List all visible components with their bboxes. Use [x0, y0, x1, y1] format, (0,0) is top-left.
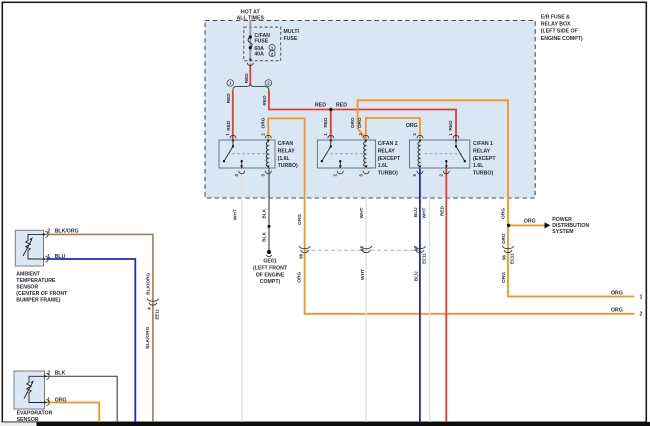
svg-text:BLK/ORG: BLK/ORG	[146, 272, 152, 294]
ambient sensor pin 2 symbol	[43, 231, 48, 237]
svg-text:WHT: WHT	[421, 207, 427, 218]
svg-text:GE01: GE01	[263, 259, 276, 265]
svg-text:RED: RED	[315, 103, 326, 109]
svg-text:(CENTER OF FRONT: (CENTER OF FRONT	[16, 291, 68, 297]
svg-text:50: 50	[413, 246, 418, 251]
svg-text:OF ENGINE: OF ENGINE	[256, 272, 285, 278]
wire ORG relay U2 pin 3 to relay U3 pin 3	[366, 118, 420, 140]
relay U1 coil	[266, 142, 268, 167]
svg-text:1: 1	[47, 398, 50, 404]
fuse output pin	[247, 63, 253, 66]
svg-text:ALL TIMES: ALL TIMES	[237, 15, 265, 21]
svg-text:RED: RED	[336, 103, 347, 109]
svg-text:SYSTEM: SYSTEM	[552, 229, 573, 235]
circled 2 at brace	[265, 80, 272, 87]
svg-text:SENSOR: SENSOR	[16, 285, 38, 291]
fuse element C/FAN FUSE	[248, 37, 252, 48]
svg-text:ORG: ORG	[55, 398, 67, 404]
evaporator sensor box	[14, 371, 45, 409]
ambient sensor thermistor	[23, 234, 44, 259]
svg-text:BLK/ORG: BLK/ORG	[145, 326, 151, 348]
wire BLU relay U3 pin 5 down	[419, 169, 421, 422]
wire RED fuse to brace	[249, 64, 251, 85]
relay U2 box C/FAN 2 RELAY	[317, 140, 375, 168]
relay U1 pin 3 symbol	[265, 165, 271, 173]
svg-text:ORG: ORG	[261, 117, 267, 128]
wire WHT relay U2 pin 5 down	[365, 169, 367, 422]
svg-text:BLK/ORG: BLK/ORG	[55, 229, 79, 235]
svg-text:FUSE: FUSE	[284, 36, 298, 42]
svg-text:(EXCEPT: (EXCEPT	[473, 156, 496, 162]
wire BLK relay U1 pin 3 to ground GE01	[268, 169, 270, 252]
svg-text:ORG: ORG	[350, 117, 356, 128]
svg-text:WHT: WHT	[232, 209, 238, 220]
wire RED branch 2 across to relay U3 pin 1	[269, 91, 456, 140]
relay U2 pin 2 symbol	[337, 165, 343, 173]
svg-text:96: 96	[298, 253, 303, 258]
svg-text:RELAY: RELAY	[278, 148, 296, 154]
svg-text:BLK: BLK	[261, 208, 267, 218]
svg-text:RED: RED	[448, 120, 454, 131]
wire BLK evaporator sensor pin 2	[46, 376, 117, 422]
relay U3 linkage	[425, 153, 463, 155]
relay U1 linkage	[227, 153, 265, 155]
svg-text:ENGINE COMPT): ENGINE COMPT)	[541, 36, 583, 42]
relay U2 pin 1 symbol	[328, 135, 334, 142]
wire BLU ambient sensor pin 1	[46, 259, 135, 422]
svg-text:1.6L: 1.6L	[378, 163, 389, 169]
wire ORG relay U1 pin 2 down to ORG line 2	[268, 118, 634, 313]
svg-text:RELAY: RELAY	[378, 148, 396, 154]
svg-text:C/FAN: C/FAN	[278, 141, 294, 147]
wire RED relay U3 pin 2 down	[445, 169, 447, 422]
junction RED	[329, 108, 332, 111]
relay U3 switch	[446, 141, 465, 168]
evaporator sensor thermistor	[24, 376, 45, 402]
svg-text:SENSOR: SENSOR	[17, 417, 39, 423]
relay U1 pin 4 symbol	[239, 165, 245, 173]
svg-text:BLU: BLU	[413, 207, 419, 217]
svg-text:C/FAN 2: C/FAN 2	[378, 141, 398, 147]
wire from battery to fuse	[249, 20, 251, 61]
svg-text:2: 2	[47, 229, 50, 235]
svg-text:RELAY BOX: RELAY BOX	[541, 22, 571, 28]
svg-text:ORG: ORG	[501, 272, 507, 283]
svg-text:EVAPORATOR: EVAPORATOR	[17, 410, 53, 416]
wire ORG evaporator sensor pin 1	[46, 403, 99, 422]
svg-text:2: 2	[640, 312, 643, 318]
wire RED drop to relay U2 pin 1	[330, 110, 332, 140]
relay U1 pin 2 symbol	[265, 135, 271, 142]
svg-text:(1.6L: (1.6L	[278, 156, 291, 162]
svg-text:WHT: WHT	[360, 269, 366, 280]
svg-text:ORG: ORG	[501, 208, 507, 219]
svg-text:93: 93	[360, 246, 365, 251]
svg-text:(LEFT SIDE OF: (LEFT SIDE OF	[541, 29, 578, 35]
svg-text:TURBO): TURBO)	[278, 163, 298, 169]
svg-text:1: 1	[640, 294, 643, 300]
svg-text:RED: RED	[262, 95, 268, 106]
relay U3 pin 5 symbol	[417, 165, 423, 173]
svg-text:RED: RED	[226, 120, 232, 131]
svg-text:ORG: ORG	[501, 233, 507, 244]
svg-text:MULTI: MULTI	[284, 29, 300, 35]
svg-text:(LEFT FRONT: (LEFT FRONT	[253, 265, 288, 271]
svg-text:40A: 40A	[254, 52, 264, 58]
svg-text:96: 96	[502, 255, 507, 260]
E/R fuse and relay box	[205, 21, 535, 199]
svg-text:RED: RED	[439, 206, 445, 217]
circled 2 at fuse	[269, 51, 275, 57]
relay U3 box C/FAN 1 RELAY	[410, 140, 470, 168]
svg-text:EC11: EC11	[509, 253, 514, 264]
relay U1 box C/FAN RELAY	[219, 140, 275, 168]
relay U2 switch	[322, 141, 341, 168]
relay U3 coil	[418, 142, 420, 167]
wire WHT relay U2 pin 2 down and right	[340, 169, 429, 422]
svg-text:BLK: BLK	[55, 371, 66, 377]
ground GE01	[267, 250, 271, 254]
svg-text:ORG: ORG	[406, 123, 418, 129]
svg-text:1.6L: 1.6L	[473, 163, 484, 169]
relay U2 coil	[364, 142, 366, 167]
svg-text:TURBO): TURBO)	[378, 171, 398, 177]
relay U3 pin 2 symbol	[443, 165, 449, 173]
svg-text:BUMPER FRAME): BUMPER FRAME)	[16, 298, 60, 304]
svg-text:EE11: EE11	[155, 309, 160, 320]
svg-text:BLU: BLU	[55, 254, 66, 260]
svg-text:ORG: ORG	[357, 117, 363, 128]
circled 1 at fuse	[269, 45, 275, 51]
wire ORG branch to power distribution arrow	[508, 224, 545, 226]
bottom bar	[0, 422, 37, 426]
relay U1 switch	[224, 141, 242, 168]
svg-text:COMPT): COMPT)	[260, 279, 281, 285]
connector 50 EC11 on BLU wire	[414, 246, 425, 253]
svg-text:EC11: EC11	[421, 253, 426, 264]
svg-text:ORG: ORG	[611, 290, 623, 296]
svg-text:ORG: ORG	[524, 219, 536, 225]
connector 96 on ORG wire	[299, 246, 310, 253]
svg-text:BLU: BLU	[414, 271, 420, 281]
wire ORG relay U2 pin 3 to power distribution and ORG line 1	[358, 100, 635, 296]
svg-text:ORG: ORG	[297, 214, 303, 225]
junction ORG	[507, 224, 510, 227]
splice on BLK wire	[267, 225, 270, 228]
svg-text:(EXCEPT: (EXCEPT	[378, 156, 401, 162]
multi fuse box	[244, 27, 281, 61]
connector 4 EE11 on BLK/ORG wire	[147, 299, 158, 306]
svg-text:RED: RED	[226, 93, 232, 104]
relay U2 pin 3 symbol	[363, 135, 369, 142]
svg-text:WHT: WHT	[359, 207, 365, 218]
ambient sensor pin 1 symbol	[43, 256, 48, 262]
svg-text:FUSE: FUSE	[254, 39, 268, 45]
svg-text:ORG: ORG	[296, 271, 302, 282]
relay U2 linkage	[325, 153, 363, 155]
svg-text:2: 2	[47, 371, 50, 377]
svg-text:BLK: BLK	[261, 232, 267, 242]
wire WHT relay U1 pin 4 down	[241, 169, 243, 422]
connector 96 EC11 on ORG wire	[502, 246, 513, 253]
ambient temperature sensor box	[15, 230, 43, 266]
svg-text:ORG: ORG	[611, 308, 623, 314]
relay U2 pin 5 symbol	[363, 165, 369, 173]
relay U3 pin 1 symbol	[453, 135, 459, 142]
connector 93 on WHT wire	[361, 246, 372, 253]
circled 1 at brace	[227, 80, 234, 87]
arrow to power distribution system	[545, 222, 551, 228]
wire BLK/ORG ambient sensor pin 2	[46, 234, 153, 422]
connector EC11 dashed line	[305, 249, 420, 251]
evaporator sensor pin 1 symbol	[44, 400, 49, 406]
svg-text:AMBIENT: AMBIENT	[16, 271, 40, 277]
relay U3 pin 3 symbol	[417, 135, 423, 142]
svg-text:RED: RED	[323, 117, 329, 128]
svg-text:E/R FUSE &: E/R FUSE &	[541, 14, 570, 20]
evaporator sensor pin 2 symbol	[44, 373, 49, 379]
svg-text:1: 1	[47, 254, 50, 260]
wire RED branch 1 to relay U1 pin 1	[232, 91, 234, 140]
svg-text:RELAY: RELAY	[473, 148, 491, 154]
brace split symbol	[233, 84, 269, 91]
svg-text:C/FAN 1: C/FAN 1	[473, 141, 493, 147]
svg-text:RED: RED	[244, 73, 250, 84]
relay U1 pin 1 symbol	[230, 135, 236, 142]
svg-text:TEMPERATURE: TEMPERATURE	[16, 278, 56, 284]
svg-text:TURBO): TURBO)	[473, 171, 493, 177]
